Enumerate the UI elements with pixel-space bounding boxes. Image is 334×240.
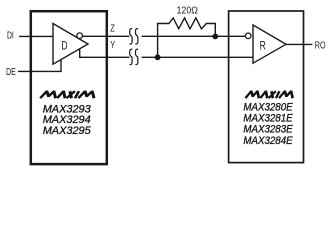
part numbers MAX3293/94/95: [43, 103, 92, 137]
receiver box (MAX3280E-84E IC outline): [229, 11, 304, 163]
wire Z from driver bubble to break: [82, 35, 129, 37]
junction dot on Y line: [155, 54, 161, 60]
svg-text:MAX3283E: MAX3283E: [243, 124, 293, 136]
resistor R1 120ohm zigzag: [158, 18, 216, 56]
svg-text:RO: RO: [315, 40, 326, 52]
svg-text:DI: DI: [7, 30, 14, 42]
svg-text:DE: DE: [6, 66, 16, 78]
wire Y from break to receiver input: [142, 56, 253, 58]
junction dot on Z line: [212, 34, 218, 40]
wire Z from break to receiver bubble: [142, 35, 246, 37]
svg-text:MAX3295: MAX3295: [43, 125, 92, 137]
svg-text:R: R: [260, 39, 266, 53]
driver box (MAX3293/94/95 IC outline): [31, 11, 107, 164]
part numbers MAX3280E-MAX3284E: [243, 102, 293, 147]
wire Y step from driver bottom edge: [80, 49, 130, 58]
wire DI input: [19, 35, 54, 37]
svg-text:Z: Z: [110, 22, 115, 34]
MAXIM logo left box: [40, 91, 96, 98]
receiver R1 triangle: [253, 25, 286, 63]
wire RO output: [286, 43, 312, 45]
driver inversion bubble: [77, 33, 83, 39]
svg-text:Y: Y: [110, 39, 115, 51]
receiver inversion bubble: [245, 33, 251, 39]
break symbol on Z line: [130, 29, 139, 45]
svg-text:MAX3284E: MAX3284E: [243, 135, 293, 147]
wire DE input: [18, 59, 61, 71]
MAXIM logo right box: [245, 91, 294, 98]
svg-text:D: D: [61, 38, 67, 52]
break symbol on Y line: [130, 49, 139, 65]
svg-text:120Ω: 120Ω: [177, 5, 199, 17]
driver D1 triangle: [53, 24, 88, 65]
